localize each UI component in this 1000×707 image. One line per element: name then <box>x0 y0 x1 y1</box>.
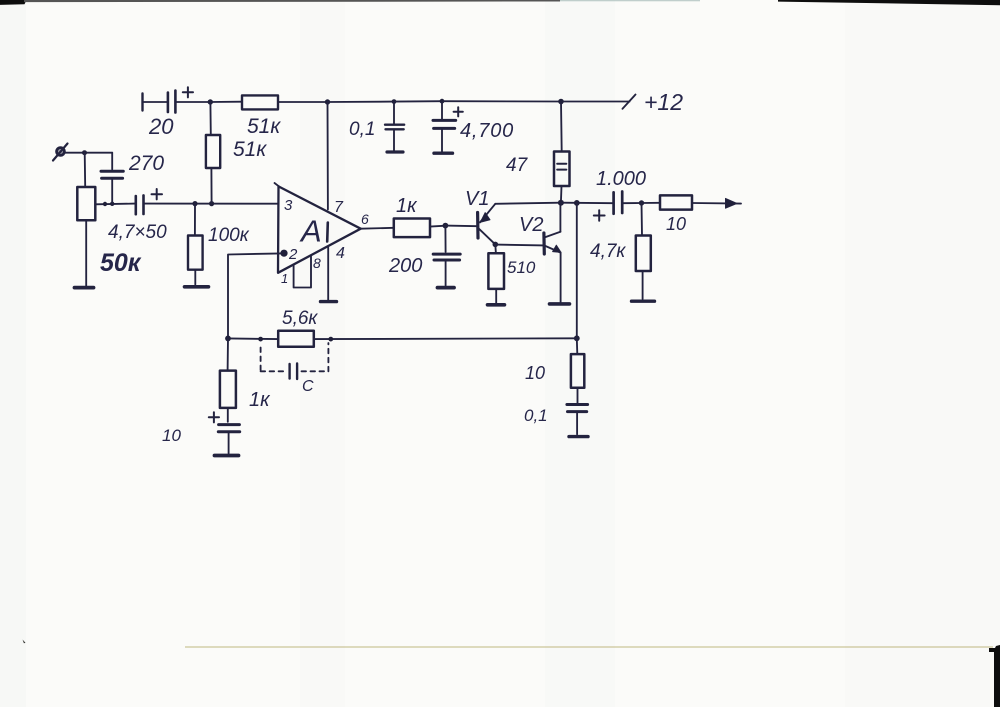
wire cap to opamp pin3 <box>144 203 279 205</box>
node 51k bottom tap <box>209 201 214 206</box>
wire 1k to node <box>430 225 445 228</box>
svg-text:V2: V2 <box>519 214 543 236</box>
capacitor 0,1 rail bypass <box>385 102 404 151</box>
potentiometer 50k body <box>77 187 95 220</box>
svg-text:1: 1 <box>281 271 288 286</box>
svg-text:510: 510 <box>507 258 536 277</box>
node 47 tap <box>558 99 564 105</box>
resistor 5,6k <box>278 331 314 347</box>
svg-text:+12: +12 <box>644 89 683 115</box>
svg-text:0,1: 0,1 <box>349 119 375 140</box>
svg-text:10: 10 <box>162 426 181 445</box>
capacitor 270 <box>101 153 123 204</box>
ground for 50k <box>75 286 94 290</box>
wire node to 10 resistor <box>642 202 661 204</box>
wire V2 collector up to node <box>559 203 561 232</box>
node 5,6k left <box>258 337 263 342</box>
svg-text:200: 200 <box>388 255 422 277</box>
pen speck bottom left <box>23 640 26 644</box>
resistor 510 <box>488 244 504 303</box>
ground for 10 feedback <box>215 454 239 458</box>
capacitor 200 <box>433 226 460 286</box>
node feedback takeoff top <box>574 200 580 206</box>
svg-text:50к: 50к <box>100 249 142 277</box>
input terminal J1 <box>53 144 68 161</box>
scanner edge top thin line <box>24 0 560 2</box>
resistor 4,7k <box>636 203 651 299</box>
opamp pin2 dot <box>280 250 287 257</box>
wire pin2 to feedback <box>228 253 281 338</box>
capacitor 20 input of rail <box>143 87 194 112</box>
svg-text:4,700: 4,700 <box>460 120 514 142</box>
node 100k tap <box>192 201 197 206</box>
wire V1 emitter to V2 base <box>495 244 544 247</box>
wire V2 emitter down <box>560 253 562 302</box>
node 4,7k tap <box>639 200 644 205</box>
wire feedback vertical <box>576 203 578 338</box>
wire rail to 47 node <box>442 100 561 102</box>
wire V1 collector to 47 node <box>495 203 561 204</box>
svg-text:6: 6 <box>361 211 369 227</box>
wire node to 51k horizontal <box>210 101 242 103</box>
resistor 47 <box>554 102 570 203</box>
node output main <box>558 200 564 206</box>
svg-text:4,7×50: 4,7×50 <box>108 222 167 243</box>
node V1 emitter <box>493 242 499 248</box>
svg-text:51к: 51к <box>233 138 267 161</box>
label A1 subscript bar <box>326 223 329 242</box>
opamp pin4 wire <box>327 248 329 300</box>
opamp pins 1-8 strap <box>294 256 311 287</box>
capacitor 4,700 electrolytic <box>433 101 463 151</box>
wire 5,6k left lead <box>228 337 278 340</box>
wire node to coupling cap <box>561 202 613 205</box>
wire cap20 to node <box>176 101 209 103</box>
node feedback-1k junction <box>225 336 231 342</box>
transistor V1 <box>478 204 496 245</box>
resistor 51k horizontal <box>242 95 278 109</box>
node rail A <box>208 99 213 104</box>
node 200/base <box>443 223 449 229</box>
op-amp A1 <box>275 183 361 273</box>
output arrow <box>726 198 738 208</box>
wire junction down to pot 50k <box>84 153 87 187</box>
transistor V2 <box>544 232 561 254</box>
capacitor 10 feedback electrolytic <box>209 412 240 453</box>
node feedback bottom <box>574 335 580 341</box>
svg-text:10: 10 <box>525 363 545 383</box>
scanner edge top faint line <box>560 0 700 1</box>
svg-text:5,6к: 5,6к <box>282 308 318 329</box>
scanner edge top-right wedge <box>778 0 1000 5</box>
ground for 0,1 <box>387 150 403 153</box>
svg-text:1к: 1к <box>249 389 271 411</box>
wire rail to 0,1 <box>328 101 394 103</box>
ground for pin4 <box>321 300 337 303</box>
wire rail to 4,700 <box>394 100 442 102</box>
capacitor 1.000 electrolytic <box>594 192 622 221</box>
ground for 4,700 <box>434 151 453 154</box>
svg-text:4,7к: 4,7к <box>590 241 626 262</box>
svg-text:1к: 1к <box>396 195 418 217</box>
svg-text:47: 47 <box>506 155 529 176</box>
resistor 10 output <box>660 195 692 209</box>
svg-text:V1: V1 <box>465 188 489 210</box>
node wiper-270 junction <box>103 202 107 206</box>
svg-text:51к: 51к <box>247 115 281 138</box>
wire node to V1 base <box>445 225 477 228</box>
ground for 200 <box>438 286 455 290</box>
wire pot bottom to ground <box>85 220 87 286</box>
svg-text:2: 2 <box>288 246 298 263</box>
ground for V2 <box>550 302 570 306</box>
capacitor C dashed option <box>261 343 329 371</box>
resistor 10 zobel <box>571 338 584 403</box>
wire 10 to arrow <box>692 202 741 205</box>
node 5,6k right <box>328 337 333 342</box>
node input-top junction <box>82 150 87 155</box>
resistor 51k vertical <box>206 102 220 204</box>
resistor 1k feedback <box>220 338 236 421</box>
svg-text:20: 20 <box>148 114 174 139</box>
svg-text:8: 8 <box>313 255 321 271</box>
capacitor 4,7x50 electrolytic <box>136 189 162 214</box>
opamp pin7 wire <box>327 102 329 209</box>
svg-text:7: 7 <box>334 199 344 216</box>
svg-text:100к: 100к <box>208 225 250 246</box>
node 0,1 tap <box>392 99 397 104</box>
value labels <box>100 89 686 445</box>
svg-text:1.000: 1.000 <box>596 168 646 190</box>
wire rail to +12 terminal <box>561 101 630 103</box>
ground for 100k <box>185 285 209 289</box>
wire 51k to pin7 node <box>278 101 327 103</box>
wire input to 270/junction <box>65 152 113 154</box>
scanner edge top-left blob <box>0 0 27 5</box>
wire cap to 4,7k node <box>623 202 642 204</box>
ground for zobel <box>569 435 588 438</box>
svg-text:A: A <box>299 214 322 249</box>
svg-text:C: C <box>302 378 314 395</box>
paper bottom faint crease line <box>185 646 993 647</box>
svg-text:4: 4 <box>336 245 345 262</box>
ground for 4,7k <box>632 300 655 303</box>
scanner edge bottom-right bar <box>994 645 1000 707</box>
svg-text:0,1: 0,1 <box>524 406 548 425</box>
resistor 100k <box>188 204 203 285</box>
wire feedback horizontal <box>314 337 577 340</box>
svg-text:10: 10 <box>666 214 686 234</box>
opamp pin6 output wire <box>361 227 394 230</box>
node 4,700 tap <box>440 99 445 104</box>
resistor 1k output <box>394 219 430 238</box>
node pin7 rail <box>325 99 330 104</box>
ground for 510 <box>488 303 505 307</box>
svg-text:3: 3 <box>284 197 293 214</box>
terminal +12 slash <box>623 95 636 109</box>
capacitor 0,1 zobel <box>567 405 588 435</box>
svg-text:270: 270 <box>128 152 164 175</box>
wire pot wiper <box>95 203 135 206</box>
